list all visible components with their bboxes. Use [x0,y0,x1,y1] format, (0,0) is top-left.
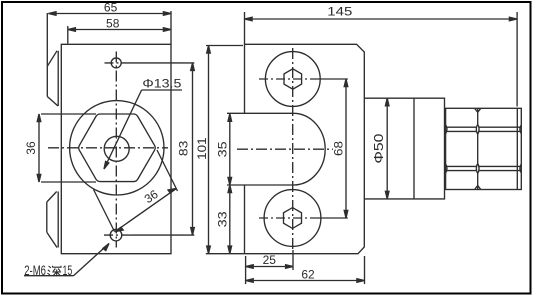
hole M6 top [111,58,121,68]
bolt head upper [47,51,58,106]
leader phi13.5 [104,90,182,169]
hex chamfer line lower a [446,165,522,167]
svg-text:36: 36 [24,141,38,155]
centerline top hole [105,62,125,64]
extension 83 top [124,62,194,64]
leader 2-M6 [24,244,109,276]
extension 83 bottom [130,234,194,236]
hex corner notches [475,108,481,189]
boss circle [70,101,164,195]
svg-text:Φ50: Φ50 [371,134,386,164]
svg-text:83: 83 [177,140,191,156]
bottom hex socket [284,208,302,229]
hex chamfer line upper a [446,126,522,128]
dim 25 [246,250,294,284]
hole phi13.5 [104,136,129,161]
hex nut corner edge [477,108,479,189]
svg-text:15: 15 [63,263,73,278]
dim 83 [191,63,195,235]
top hex socket [284,69,302,89]
dim 68 [313,79,348,218]
svg-text:2-M6: 2-M6 [24,263,46,278]
hole M6 bottom [110,229,122,241]
cylinder face line [413,98,415,199]
dim 35/33 [228,114,232,254]
svg-text:36: 36 [142,187,161,206]
dim 62 [246,256,365,284]
centerline slot [237,148,333,150]
top counterbore circle [265,52,320,107]
hex vesica upper [476,125,479,135]
hex nut end face line [516,108,518,189]
svg-text:35: 35 [215,141,229,157]
slot [227,113,325,185]
centerline vertical [115,52,117,248]
hand-drawn CJK glyph 'shen' [47,266,61,277]
svg-text:33: 33 [215,211,229,227]
cylinder body [364,98,444,199]
svg-text:58: 58 [106,16,120,30]
dim 65 [47,12,171,67]
svg-text:25: 25 [263,253,277,267]
svg-text:Φ13.5: Φ13.5 [142,77,181,91]
crosshair bottom hole [259,217,313,219]
svg-text:101: 101 [195,137,209,160]
hex chamfer line lower b [446,170,522,172]
centerline horizontal [48,147,168,149]
dim 36 left [37,114,96,182]
hex flats [79,114,155,182]
svg-text:68: 68 [331,141,345,156]
bolt head lower [47,192,58,248]
hex chamfer line upper b [446,130,522,132]
dim phi50 [385,98,389,199]
plate outline with slot [206,44,364,253]
dim 101 [206,46,243,254]
hex nut outline [446,108,522,189]
crosshair top hole [259,78,313,80]
svg-text:62: 62 [301,267,315,281]
dim 36 diagonal [94,150,178,232]
body outline [61,44,171,253]
centerline bottom hole [104,234,130,236]
centerline vertical right view [292,48,294,251]
bottom counterbore circle [264,190,321,247]
svg-text:65: 65 [104,0,118,14]
hex edge chamfer arcs [446,125,522,173]
dim 145 [245,12,518,107]
svg-text:145: 145 [327,5,352,19]
hex vesica lower [476,164,479,174]
dim 58 [68,11,171,44]
